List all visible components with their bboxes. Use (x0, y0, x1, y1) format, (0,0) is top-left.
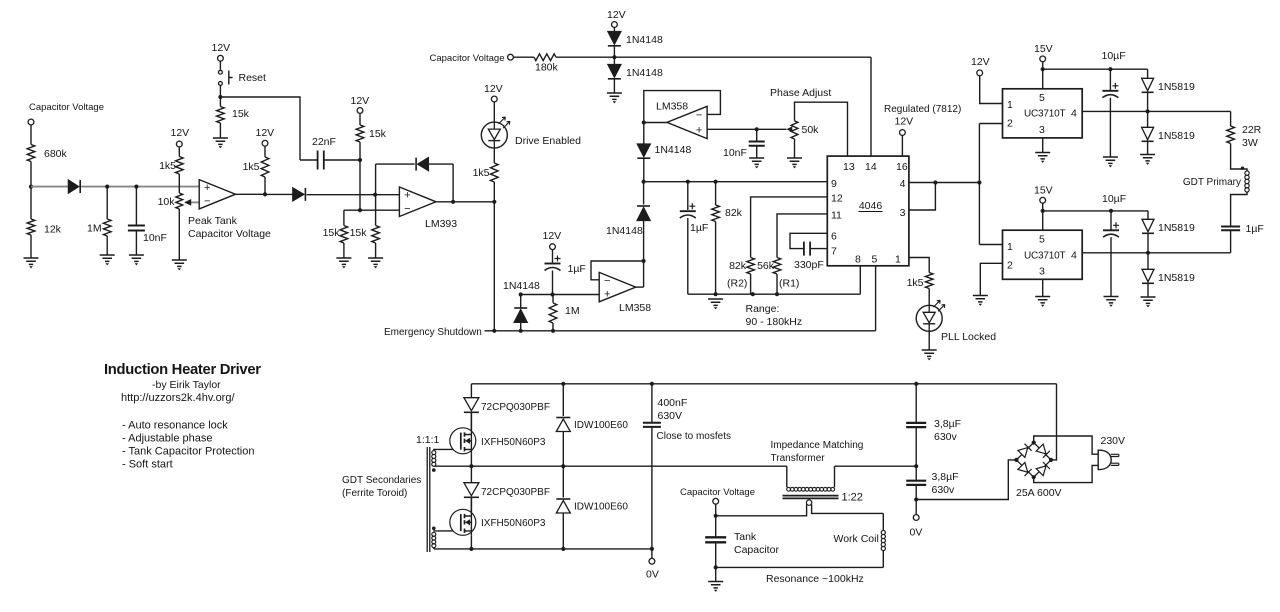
node R2 bottom (751, 292, 755, 296)
wire (715, 504, 717, 516)
wire (687, 182, 689, 210)
wire (715, 516, 717, 537)
terminal Capacitor Voltage input (28, 119, 34, 125)
diode D2 (series signal diode) (265, 193, 293, 195)
wire source (470, 454, 472, 466)
svg-text:22nF: 22nF (312, 136, 336, 148)
wire (882, 551, 884, 568)
wire down to emergency shutdown line (493, 202, 495, 331)
wire + node to 15k (375, 195, 377, 226)
node (977, 180, 981, 184)
svg-text:3: 3 (900, 207, 906, 219)
wire (552, 323, 554, 331)
svg-text:5: 5 (1039, 92, 1045, 104)
wire (513, 56, 534, 58)
terminal Capacitor Voltage (508, 54, 514, 60)
svg-text:400nF: 400nF (658, 397, 688, 409)
capacitor 10uF (driver 1) (1102, 90, 1118, 92)
svg-text:1N4148: 1N4148 (606, 225, 643, 237)
wire (915, 466, 917, 480)
node soft-start (550, 292, 554, 296)
comparator LM393 (399, 187, 436, 217)
resistor 56k (R1) (773, 258, 781, 275)
svg-text:Close to mosfets: Close to mosfets (657, 431, 731, 442)
diode D10 1N5819 (clamp to ground) (1147, 111, 1149, 127)
node feedback tap (451, 200, 455, 204)
wire (343, 243, 345, 258)
wire (219, 61, 221, 70)
wire pin 1 out (909, 258, 929, 273)
svg-text:1M: 1M (87, 223, 102, 235)
wire 15V rail 2 (1043, 210, 1148, 212)
wire pin 3 to ground (1042, 279, 1044, 296)
svg-text:14: 14 (865, 161, 877, 173)
svg-text:1N5819: 1N5819 (1158, 272, 1195, 284)
wire (1109, 98, 1111, 157)
wire (756, 146, 758, 158)
resistor 82k (loop) (712, 205, 720, 222)
svg-text:9: 9 (831, 178, 837, 190)
svg-text:3W: 3W (1242, 137, 1258, 149)
wire secondary1 to gate 1 (433, 448, 461, 450)
svg-text:72CPQ030PBF: 72CPQ030PBF (481, 402, 550, 413)
svg-text:1k5: 1k5 (907, 277, 924, 289)
svg-text:5: 5 (1039, 234, 1045, 246)
svg-text:1N4148: 1N4148 (655, 144, 692, 156)
op-amp LM358 (phase follower) (667, 106, 707, 138)
svg-text:10k: 10k (158, 196, 176, 208)
wire driver 1 output (1082, 110, 1230, 112)
potentiometer 50k Phase Adjust (791, 121, 798, 139)
svg-text:GDT Secondaries: GDT Secondaries (342, 475, 421, 486)
wire pin 4 to drivers (909, 182, 980, 184)
wire pin 5 to emergency shutdown rail (875, 266, 877, 331)
winding GDT secondary 1 (432, 451, 436, 455)
svg-text:1:1:1: 1:1:1 (416, 434, 440, 446)
wire (359, 142, 361, 160)
wire driver input bus (978, 124, 980, 245)
wire pin 6 to 330pF (790, 233, 827, 248)
node bridge minus (1014, 458, 1018, 462)
wire (562, 466, 564, 497)
wire (433, 548, 435, 549)
wire to GDT primary (1231, 144, 1247, 172)
svg-text:Induction Heater Driver: Induction Heater Driver (104, 362, 261, 378)
svg-text:13: 13 (843, 161, 855, 173)
wire pin 12 to R2 (751, 197, 828, 258)
svg-text:Drive Enabled: Drive Enabled (515, 135, 581, 147)
wire to LM393 + input (307, 194, 400, 196)
svg-text:IDW100E60: IDW100E60 (574, 420, 628, 431)
wire feedback loop (644, 91, 721, 123)
ground (368, 258, 383, 264)
svg-text:+: + (404, 190, 410, 202)
svg-text:Work Coil: Work Coil (834, 533, 879, 545)
diode bridge (upper-left) (1018, 448, 1028, 458)
svg-text:Impedance Matching: Impedance Matching (771, 440, 864, 451)
svg-text:LM358: LM358 (619, 302, 651, 314)
svg-text:630v: 630v (932, 484, 956, 496)
svg-text:- Tank Capacitor Protection: - Tank Capacitor Protection (122, 446, 254, 458)
wire drain (470, 498, 472, 509)
svg-text:12V: 12V (256, 127, 275, 139)
wire (signal, gray) (31, 186, 68, 188)
wire bottom bus to pin 8 (688, 293, 861, 295)
resistor 1k5 (PLL LED) (925, 273, 933, 289)
wire to UC2 pin 1 (979, 244, 1002, 246)
svg-text:+: + (604, 288, 610, 300)
wire to LM358 + input (521, 294, 600, 296)
svg-text:Capacitor Voltage: Capacitor Voltage (680, 487, 755, 498)
svg-text:72CPQ030PBF: 72CPQ030PBF (481, 487, 550, 498)
svg-text:12V: 12V (543, 230, 562, 242)
ground (129, 255, 144, 261)
diode D11 1N5819 (clamp to 15V) (1147, 211, 1149, 219)
rectifier bridge 25A 600V (1016, 443, 1051, 478)
wire (882, 513, 884, 530)
node 15V rail (1041, 67, 1045, 71)
wire pin 5 to 15V (1042, 62, 1044, 89)
diode D14 72CPQ030PBF (series, bottom) (470, 466, 472, 483)
wire (552, 295, 554, 303)
wire (715, 222, 717, 295)
svg-text:-by Eirik Taylor: -by Eirik Taylor (152, 379, 221, 391)
wire (794, 139, 796, 158)
wire (219, 123, 221, 138)
ground (1035, 153, 1050, 159)
ground (100, 255, 115, 261)
wire (493, 182, 495, 202)
svg-text:1: 1 (895, 254, 901, 266)
svg-text:(R2): (R2) (727, 278, 747, 290)
wire from primary (834, 466, 836, 487)
svg-text:15k: 15k (350, 227, 368, 239)
terminal 0V (913, 515, 919, 521)
terminal 0V (649, 558, 655, 564)
resistor 12k (27, 219, 35, 235)
wire (715, 182, 717, 205)
capacitor 10uF (driver 2) (1103, 229, 1119, 231)
svg-text:82k: 82k (729, 260, 747, 272)
node op-amp1 output (263, 192, 267, 196)
diode D16 IDW100E60 (freewheel bottom) (556, 501, 570, 513)
node 10nF tap (755, 127, 759, 131)
ground (922, 350, 937, 356)
node (642, 120, 646, 124)
node IDW junction (561, 464, 565, 468)
svg-text:1µF: 1µF (1246, 223, 1264, 235)
winding impedance transformer secondary (806, 500, 811, 505)
wire (376, 163, 415, 165)
svg-text:4: 4 (900, 178, 906, 190)
winding GDT secondary 2 (432, 532, 436, 536)
svg-text:12k: 12k (44, 224, 62, 236)
diode D3 (hysteresis feedback) (418, 158, 429, 171)
node 1M tap (105, 185, 109, 189)
wire output to left (644, 122, 667, 124)
wire (343, 210, 345, 225)
svg-text:15V: 15V (1034, 185, 1053, 197)
resistor 1k5 (threshold) (176, 157, 184, 175)
svg-text:+: + (696, 124, 702, 136)
wire (915, 384, 917, 423)
svg-text:3,8µF: 3,8µF (934, 418, 961, 430)
svg-text:630V: 630V (658, 410, 683, 422)
wire (1230, 111, 1232, 126)
transistor Q1 IXFH50N60P3 (MOSFET) (450, 428, 476, 454)
svg-text:Range:: Range: (746, 303, 780, 315)
wire emergency shutdown rail (485, 330, 876, 332)
svg-text:2: 2 (1007, 118, 1013, 130)
wire LM393 - input line (344, 209, 400, 211)
wire pin 5 to 15V (1042, 203, 1044, 230)
svg-text:1k5: 1k5 (159, 160, 176, 172)
wire (915, 485, 917, 500)
ground (336, 258, 351, 264)
wire (1110, 211, 1112, 230)
wire (219, 85, 221, 106)
svg-text:0V: 0V (910, 527, 923, 539)
ground (708, 299, 723, 305)
potentiometer 10k (176, 193, 183, 209)
node 15V rail 2 (1041, 209, 1045, 213)
terminal 12V (176, 141, 182, 147)
capacitor 10nF (phase filter) (749, 142, 765, 146)
wire (300, 159, 318, 161)
wire reset to 22nF (220, 97, 300, 160)
resistor 15k (to 12V) (356, 125, 364, 142)
wire bridge + to DC rail (1051, 384, 1057, 460)
svg-text:90 - 180kHz: 90 - 180kHz (746, 316, 803, 328)
diode D9 1N5819 (clamp to 15V) (1147, 69, 1149, 78)
wire + input to 50k wiper (707, 128, 786, 130)
svg-text:IXFH50N60P3: IXFH50N60P3 (481, 518, 546, 529)
svg-text:1: 1 (1007, 241, 1013, 253)
wire (375, 243, 377, 258)
inductor GDT Primary winding (1245, 171, 1249, 175)
wire (30, 162, 32, 220)
svg-text:1N5819: 1N5819 (1158, 222, 1195, 234)
winding impedance transformer primary (787, 487, 791, 491)
wire secondary left lead (716, 504, 807, 516)
svg-text:1M: 1M (565, 305, 580, 317)
wire bridge - to 0V (916, 460, 1016, 500)
svg-text:15k: 15k (369, 128, 387, 140)
wire secondary2 to gate 2 (433, 530, 461, 532)
svg-text:LM393: LM393 (425, 218, 457, 230)
node (519, 292, 523, 296)
svg-text:4: 4 (1071, 249, 1077, 261)
node 0V tap (650, 547, 654, 551)
node 3.8uF mid (914, 464, 918, 468)
wire to pin 16 (901, 135, 903, 156)
svg-text:4046: 4046 (859, 200, 883, 212)
svg-text:15k: 15k (323, 227, 341, 239)
capacitor 3.8uF 630v (bottom) (906, 481, 926, 485)
node (519, 329, 523, 333)
node LM393 + input junction (373, 193, 377, 197)
capacitor 1uF (soft start) (545, 263, 561, 265)
wire pin 3 to ground (1042, 138, 1044, 153)
node control line left end (642, 180, 646, 184)
wire (324, 159, 360, 161)
svg-text:10µF: 10µF (1102, 193, 1126, 205)
wire (715, 542, 717, 567)
ground (787, 158, 802, 164)
node M2 source (469, 547, 473, 551)
resistor 22R 3W (1227, 126, 1235, 144)
wire down to pin 14 (870, 57, 872, 156)
wire (928, 289, 930, 306)
wire mid rail right (835, 465, 917, 467)
ground (24, 258, 39, 264)
svg-text:Reset: Reset (239, 72, 267, 84)
svg-text:(Ferrite Toroid): (Ferrite Toroid) (342, 488, 407, 499)
svg-text:−: − (696, 110, 702, 122)
svg-text:Capacitor: Capacitor (734, 544, 779, 556)
svg-text:4: 4 (1071, 108, 1077, 120)
terminal 12V (reset) (218, 55, 224, 61)
wire (30, 125, 32, 145)
wire pin 11 to R1 (777, 214, 827, 258)
svg-text:Emergency Shutdown: Emergency Shutdown (384, 327, 482, 338)
svg-text:- Auto resonance lock: - Auto resonance lock (122, 420, 228, 432)
node R1 bottom (775, 292, 779, 296)
svg-text:−: − (604, 275, 610, 287)
svg-text:- Adjustable phase: - Adjustable phase (122, 433, 213, 445)
LED PLL Locked (916, 305, 942, 331)
svg-text:3,8µF: 3,8µF (932, 471, 959, 483)
resistor 15k (hysteresis low) (340, 226, 348, 244)
node (1146, 109, 1150, 113)
wire (106, 187, 108, 219)
transistor Q2 IXFH50N60P3 (MOSFET) (450, 509, 476, 535)
svg-text:(R1): (R1) (779, 278, 799, 290)
wire (135, 231, 137, 256)
svg-text:180k: 180k (535, 62, 559, 74)
ground (172, 260, 187, 266)
wire secondary right lead (812, 504, 884, 513)
svg-text:Capacitor Voltage: Capacitor Voltage (29, 102, 104, 113)
diode bridge (lower-right) (1036, 466, 1046, 476)
svg-text:22R: 22R (1242, 124, 1262, 136)
svg-text:UC3710T: UC3710T (1024, 250, 1065, 261)
diode D12 1N5819 (clamp to ground) (1147, 253, 1149, 269)
node (492, 329, 496, 333)
wire (264, 177, 266, 194)
terminal 12V (550, 244, 556, 250)
svg-text:1N4148: 1N4148 (626, 34, 663, 46)
diode D5 1N4148 (or-ing up) (643, 221, 645, 262)
wire feedback to - input (591, 261, 644, 280)
svg-text:0V: 0V (646, 569, 659, 581)
capacitor 1uF (loop filter) (680, 210, 696, 212)
wire (562, 384, 564, 416)
svg-text:12V: 12V (351, 95, 370, 107)
diode D8 1N4148 (clamp to ground) (613, 57, 615, 64)
node (1146, 251, 1150, 255)
resistor 680k (27, 145, 35, 162)
wire LM393 output (436, 201, 494, 203)
wire (552, 271, 554, 295)
wire 50k top to 4046 pin 13 (795, 102, 848, 156)
node 10nF tap (134, 185, 138, 189)
svg-text:12V: 12V (212, 42, 231, 54)
wire (651, 549, 653, 559)
node input divider junction (29, 185, 33, 189)
terminal 12V (357, 108, 363, 114)
svg-text:1N5819: 1N5819 (1158, 130, 1195, 142)
wire (236, 193, 266, 195)
wire (750, 274, 752, 294)
svg-text:10nF: 10nF (723, 147, 747, 159)
svg-text:Capacitor Voltage: Capacitor Voltage (188, 228, 271, 240)
diode D1 (series signal diode) (68, 180, 78, 193)
svg-text:3: 3 (1039, 124, 1045, 136)
wire (687, 218, 689, 294)
svg-text:7: 7 (831, 246, 837, 258)
svg-text:1k5: 1k5 (243, 161, 260, 173)
wire to UC1 pin 2 (979, 123, 1002, 125)
svg-text:1µF: 1µF (690, 222, 708, 234)
diode D15 IDW100E60 (freewheel top) (556, 419, 570, 431)
wire (562, 432, 564, 467)
phase dot secondary 1 (432, 468, 436, 472)
wire to primary (786, 466, 788, 487)
resistor 1k5 (LED) (491, 163, 499, 182)
terminal Capacitor Voltage sense (713, 498, 719, 504)
svg-text:+: + (204, 182, 210, 194)
wire (493, 102, 495, 122)
wire (493, 148, 495, 163)
svg-text:- Soft start: - Soft start (122, 459, 173, 471)
wire 22nF node down to - input line (359, 160, 361, 210)
svg-text:10nF: 10nF (143, 232, 167, 244)
node 1uF tap (686, 180, 690, 184)
node tank top (714, 514, 718, 518)
wire (1109, 69, 1111, 90)
inductor Work Coil (881, 530, 885, 534)
resistor 180k (534, 54, 556, 61)
wire driver 2 output (1082, 252, 1148, 254)
op-amp U1A peak detector (199, 180, 235, 209)
ground (1035, 297, 1050, 303)
transformer core (impedance matching) (783, 496, 839, 499)
wire (651, 427, 653, 549)
wire VCO control line to pin 9 (644, 181, 828, 183)
svg-text:12: 12 (831, 193, 843, 205)
svg-text:5: 5 (872, 254, 878, 266)
svg-text:12V: 12V (607, 9, 626, 21)
ground (607, 93, 622, 99)
node 10uF tap (1108, 67, 1112, 71)
node 10uF tap (1109, 209, 1113, 213)
wire DC+ rail (471, 383, 1056, 385)
capacitor 22nF (318, 151, 324, 170)
diode D4 1N4148 (shutdown clamp) (520, 295, 522, 309)
svg-text:1: 1 (1007, 99, 1013, 111)
diode bridge (upper-right) (1036, 444, 1046, 454)
phase dot secondary 2 (432, 527, 436, 531)
resistor 15k (to ground) (372, 226, 380, 244)
wire feedback right leg (452, 164, 454, 202)
node tank bottom (714, 565, 718, 569)
svg-text:Resonance ~100kHz: Resonance ~100kHz (766, 573, 864, 585)
wire drain (470, 413, 472, 428)
capacitor Tank Capacitor (705, 537, 726, 542)
switch Reset (push-button) (219, 70, 223, 74)
svg-text:12V: 12V (171, 127, 190, 139)
